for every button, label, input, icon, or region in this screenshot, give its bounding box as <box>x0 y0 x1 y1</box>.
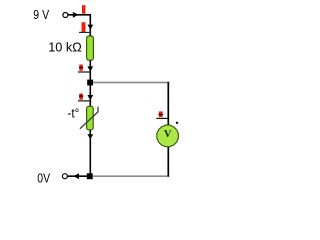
svg-text:0V: 0V <box>37 170 50 185</box>
wire 0V terminal to bottom junction <box>68 175 90 177</box>
thermistor R2 body <box>87 106 94 130</box>
svg-text:-t°: -t° <box>68 105 80 120</box>
wire resistor to junction <box>89 60 91 80</box>
red pin marker above resistor <box>82 22 86 32</box>
svg-text:10 kΩ: 10 kΩ <box>48 40 82 55</box>
gray wire junction B to voltmeter branch (bottom) <box>93 175 169 177</box>
voltmeter U1 body <box>157 125 179 147</box>
pin stub wire above resistor <box>79 31 91 33</box>
red pin marker above junction <box>79 65 83 71</box>
current arrow down above junction <box>87 66 93 71</box>
resistor R1 10 kOhm body <box>87 36 94 60</box>
svg-text:V: V <box>164 129 172 140</box>
svg-text:9 V: 9 V <box>33 7 49 22</box>
terminal 9V input pin <box>63 13 68 18</box>
pin stub wire voltmeter <box>156 117 168 119</box>
pin stub wire above junction <box>78 71 90 73</box>
junction node A (to voltmeter branch) <box>87 80 93 86</box>
current arrow down above thermistor <box>87 95 93 100</box>
wire voltmeter branch vertical <box>167 82 169 177</box>
current arrow down above resistor <box>87 25 93 30</box>
junction node B (bottom) <box>87 173 93 179</box>
current arrow down below thermistor <box>87 134 93 139</box>
thermistor diagonal stroke <box>80 107 98 129</box>
gray wire junction A to voltmeter branch (top) <box>93 82 169 84</box>
wire from 9V terminal to top corner <box>68 15 91 37</box>
wire thermistor to bottom junction <box>89 130 91 176</box>
pin dot voltmeter right <box>176 122 178 124</box>
current arrow right on top wire <box>73 12 79 18</box>
terminal 0V pin <box>62 174 67 179</box>
red pin marker on top wire <box>82 5 85 14</box>
red pin marker voltmeter + terminal <box>159 111 163 117</box>
red pin marker above thermistor <box>79 94 83 100</box>
pin stub wire above thermistor <box>78 100 90 102</box>
wire junction to thermistor <box>89 85 91 107</box>
current arrow left on bottom wire <box>73 173 79 179</box>
